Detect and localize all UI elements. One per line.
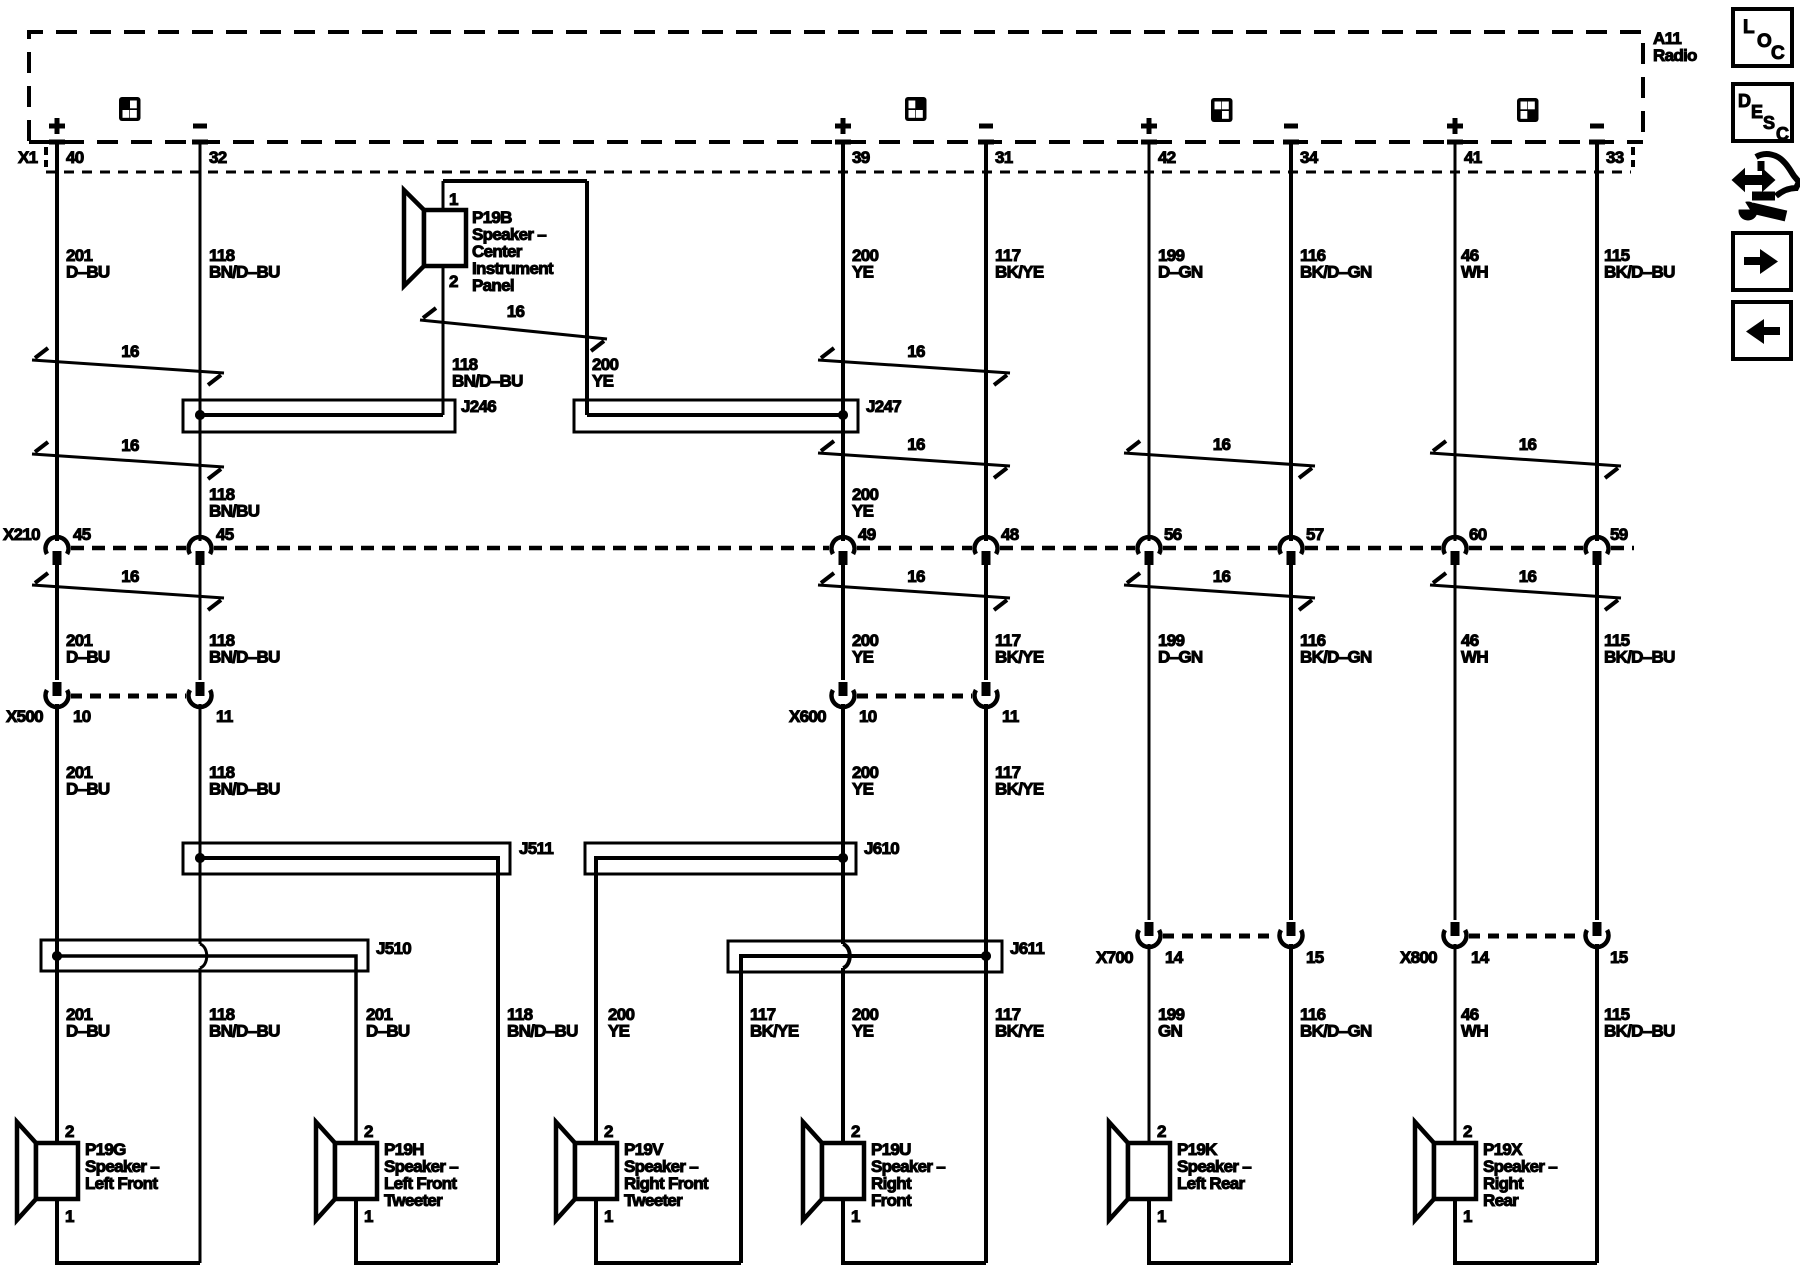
label wire 201 D-BU tweeter branch [366,1005,410,1041]
label wire 201 D-BU top [66,246,110,282]
svg-text:48: 48 [1001,525,1019,544]
svg-text:Front: Front [871,1191,912,1210]
svg-text:WH: WH [1461,1022,1488,1041]
svg-text:59: 59 [1610,525,1628,544]
svg-text:BK/D–GN: BK/D–GN [1300,648,1372,667]
label wire 118 BN/BU below J246 [209,485,260,521]
svg-text:32: 32 [209,148,227,167]
svg-text:2: 2 [65,1122,74,1141]
label P19B wire 200 YE [592,355,619,391]
radio output terminal RR+ pin 41 (+) [1447,118,1482,167]
svg-text:X500: X500 [6,707,43,726]
label wire 199 D-GN top [1158,246,1203,282]
label wire 115 BK/D-BU top [1604,246,1675,282]
svg-text:YE: YE [852,502,874,521]
svg-text:16: 16 [907,435,925,454]
wire gauge marker 16 (row B wires 40/32) [32,436,224,479]
svg-text:41: 41 [1464,148,1482,167]
svg-text:16: 16 [907,567,925,586]
wire 46 WH right rear + (W7) [1444,141,1598,1263]
wire gauge marker 16 (row B wires 41/33) [1430,435,1621,478]
svg-text:D–GN: D–GN [1158,263,1203,282]
svg-text:Tweeter: Tweeter [384,1191,443,1210]
speaker P19X Right Rear [1415,1122,1557,1226]
svg-text:X210: X210 [3,525,40,544]
svg-text:49: 49 [858,525,876,544]
svg-text:11: 11 [1002,707,1019,726]
label wire 200 YE below X600 [852,763,879,799]
label wire 46 WH mid [1461,631,1488,667]
svg-text:16: 16 [1519,435,1537,454]
radio output terminal RF- pin 31 (-) [978,126,1013,167]
svg-text:YE: YE [852,780,874,799]
svg-text:D–BU: D–BU [66,1022,110,1041]
svg-text:2: 2 [1157,1122,1166,1141]
wire 116 BK/D-GN left rear - (W6) [1280,141,1303,1263]
connector X600 [789,696,1019,726]
svg-text:J510: J510 [376,939,411,958]
splice J610 [585,839,899,1143]
svg-text:E: E [1751,102,1763,122]
svg-text:BN/D–BU: BN/D–BU [209,263,280,282]
svg-text:1: 1 [364,1207,373,1226]
label wire 201 D-BU mid [66,631,110,667]
svg-text:D–GN: D–GN [1158,648,1203,667]
svg-text:O: O [1757,31,1771,52]
svg-text:15: 15 [1306,948,1324,967]
svg-text:BK/D–BU: BK/D–BU [1604,648,1675,667]
legend icon forward arrow [1733,233,1791,290]
label wire 116 BK/D-GN mid [1300,631,1372,667]
svg-text:2: 2 [364,1122,373,1141]
label wire 46 WH bottom [1461,1005,1488,1041]
svg-text:16: 16 [507,302,525,321]
svg-text:10: 10 [73,707,91,726]
splice J611 [728,939,1044,1263]
radio output terminal LF+ pin 40 (+) [49,118,84,167]
svg-text:2: 2 [1463,1122,1472,1141]
radio output terminal RR- pin 33 (-) [1589,126,1624,167]
svg-text:YE: YE [852,1022,874,1041]
svg-text:1: 1 [449,190,458,209]
label wire 118 BN/D-BU tweeter branch [507,1005,578,1041]
wire gauge marker 16 (row B wires 42/34) [1124,435,1315,478]
svg-text:Left Front: Left Front [85,1174,158,1193]
speaker P19V Right Front Tweeter [556,1122,709,1226]
svg-text:16: 16 [121,342,139,361]
svg-text:60: 60 [1469,525,1487,544]
svg-text:Tweeter: Tweeter [624,1191,683,1210]
svg-text:YE: YE [852,648,874,667]
wire 201 D-BU left front + (W1) [45,141,200,1263]
svg-text:BN/BU: BN/BU [209,502,260,521]
svg-text:BK/D–BU: BK/D–BU [1604,1022,1675,1041]
label wire 117 BK/YE tweeter branch [750,1005,799,1041]
wire P19B speaker feed (top bar) [443,181,587,415]
radio output terminal LR- pin 34 (-) [1283,126,1319,167]
speaker P19U Right Front [803,1122,945,1226]
svg-text:C: C [1776,124,1789,144]
radio A11 dashed outline [29,32,1643,142]
svg-text:1: 1 [65,1207,74,1226]
connector X500 [6,696,233,726]
wire 115 BK/D-BU right rear - (W8) [1586,141,1609,1263]
speaker position icon (left front) [119,97,141,121]
speaker position icon (right rear) [1517,98,1539,122]
svg-text:WH: WH [1461,648,1488,667]
speaker P19K Left Rear [1109,1122,1251,1226]
label wire 200 YE below J247 [852,485,879,521]
svg-text:45: 45 [216,525,234,544]
splice J247 [574,397,901,432]
label wire 200 YE bottom [852,1005,879,1041]
svg-text:J611: J611 [1010,939,1044,958]
connector X210 row [71,546,1634,551]
svg-text:X800: X800 [1400,948,1437,967]
svg-text:Radio: Radio [1653,46,1697,65]
label wire 117 BK/YE bottom [995,1005,1044,1041]
splice J246 [183,397,496,432]
label wire 117 BK/YE mid [995,631,1044,667]
svg-text:1: 1 [1463,1207,1472,1226]
label wire 46 WH top [1461,246,1488,282]
legend icon LOC [1733,9,1792,66]
svg-text:S: S [1763,113,1775,133]
svg-text:16: 16 [1213,435,1231,454]
wire 118 BN/D-BU left front - (W2) [189,141,212,1263]
label wire 200 YE top [852,246,879,282]
svg-text:J246: J246 [461,397,496,416]
wire P19V pin1 return run [596,1198,741,1263]
label wire 116 BK/D-GN bottom [1300,1005,1372,1041]
svg-text:X1: X1 [18,148,38,167]
svg-text:BK/D–GN: BK/D–GN [1300,1022,1372,1041]
svg-text:1: 1 [604,1207,613,1226]
svg-text:11: 11 [216,707,233,726]
label wire 118 BN/D-BU bottom [209,1005,280,1041]
speaker position icon (left rear) [1211,98,1233,122]
label wire 200 YE mid [852,631,879,667]
wire gauge marker 16 (row C wires 42/34) [1124,567,1315,610]
label wire 200 YE tweeter branch [608,1005,635,1041]
speaker P19H Left Front Tweeter [316,1122,458,1226]
svg-text:16: 16 [1213,567,1231,586]
svg-text:15: 15 [1610,948,1628,967]
label wire 118 BN/D-BU top [209,246,280,282]
svg-text:BN/D–BU: BN/D–BU [209,648,280,667]
wire gauge marker 16 (row C wires 39/31) [818,567,1010,610]
svg-text:D–BU: D–BU [366,1022,410,1041]
svg-text:33: 33 [1606,148,1624,167]
legend icon back arrow [1733,302,1791,359]
label wire 117 BK/YE top [995,246,1044,282]
svg-text:BK/YE: BK/YE [750,1022,799,1041]
svg-text:31: 31 [995,148,1013,167]
svg-text:BN/D–BU: BN/D–BU [209,1022,280,1041]
X210 label and pins [3,525,1628,544]
label wire 118 BN/D-BU mid [209,631,280,667]
svg-text:BN/D–BU: BN/D–BU [209,780,280,799]
label wire 118 BN/D-BU below X500 [209,763,280,799]
svg-text:16: 16 [907,342,925,361]
svg-text:J247: J247 [866,397,901,416]
svg-text:Rear: Rear [1483,1191,1519,1210]
svg-text:BK/D–GN: BK/D–GN [1300,263,1372,282]
wire 117 BK/YE right front - (W4) [975,141,998,1263]
label wire 199 D-GN mid [1158,631,1203,667]
svg-text:14: 14 [1471,948,1490,967]
wire gauge marker 16 (row A wires 39/31) [818,342,1010,385]
label wire 116 BK/D-GN top [1300,246,1372,282]
label wire 115 BK/D-BU mid [1604,631,1675,667]
svg-text:WH: WH [1461,263,1488,282]
label wire 201 D-BU below X500 [66,763,110,799]
legend icon DESC [1733,84,1792,144]
svg-text:39: 39 [852,148,870,167]
svg-text:YE: YE [592,372,614,391]
svg-text:BK/YE: BK/YE [995,780,1044,799]
label wire 199 GN bottom [1158,1005,1185,1041]
label wire 117 BK/YE below X600 [995,763,1044,799]
svg-text:BK/YE: BK/YE [995,263,1044,282]
svg-text:1: 1 [851,1207,860,1226]
svg-text:42: 42 [1158,148,1176,167]
svg-text:BK/D–BU: BK/D–BU [1604,263,1675,282]
svg-text:YE: YE [852,263,874,282]
svg-text:16: 16 [121,567,139,586]
svg-text:BK/YE: BK/YE [995,1022,1044,1041]
label A11 Radio [1653,29,1697,65]
svg-text:BN/D–BU: BN/D–BU [452,372,523,391]
svg-text:BK/YE: BK/YE [995,648,1044,667]
svg-text:D–BU: D–BU [66,263,110,282]
connector X1 row [18,147,1633,172]
svg-text:J511: J511 [519,839,553,858]
wire 199 D-GN left rear + (W5) [1138,141,1292,1263]
connector X700 [1096,936,1324,967]
svg-text:YE: YE [608,1022,630,1041]
radio output terminal LF- pin 32 (-) [192,126,227,167]
svg-text:1: 1 [1157,1207,1166,1226]
svg-text:56: 56 [1164,525,1182,544]
radio output terminal RF+ pin 39 (+) [835,118,870,167]
svg-text:D–BU: D–BU [66,780,110,799]
svg-text:40: 40 [66,148,84,167]
svg-text:D: D [1738,91,1751,111]
wire 200 YE right front + (W3) [832,141,986,1263]
svg-text:57: 57 [1306,525,1324,544]
label wire 115 BK/D-BU bottom [1604,1005,1675,1041]
speaker P19B Center Instrument Panel [404,190,554,295]
svg-text:16: 16 [121,436,139,455]
wire gauge marker 16 (row C wires 40/32) [32,567,224,610]
wire gauge marker 16 (row B wires 39/31) [818,435,1010,478]
wire gauge marker 16 (P19B wires) [420,302,607,351]
svg-text:X700: X700 [1096,948,1133,967]
wire gauge marker 16 (row A wires 40/32) [32,342,224,385]
svg-text:X600: X600 [789,707,826,726]
svg-text:D–BU: D–BU [66,648,110,667]
radio output terminal LR+ pin 42 (+) [1141,118,1176,167]
svg-text:C: C [1771,43,1785,64]
svg-text:GN: GN [1158,1022,1183,1041]
speaker P19G Left Front [17,1122,159,1226]
svg-text:2: 2 [604,1122,613,1141]
wire gauge marker 16 (row C wires 41/33) [1430,567,1621,610]
label wire 201 D-BU bottom [66,1005,110,1041]
svg-text:2: 2 [449,272,458,291]
label P19B wire 118 BN/D-BU [452,355,523,391]
speaker position icon (right front) [905,97,927,121]
svg-text:Left Rear: Left Rear [1177,1174,1245,1193]
svg-text:34: 34 [1300,148,1319,167]
svg-text:L: L [1743,17,1755,38]
splice J510 [41,939,411,1143]
svg-text:14: 14 [1165,948,1184,967]
splice J511 [183,839,553,1263]
svg-text:16: 16 [1519,567,1537,586]
svg-text:10: 10 [859,707,877,726]
svg-text:BN/D–BU: BN/D–BU [507,1022,578,1041]
legend icon wiring route (arrow and wrench) [1733,154,1799,220]
svg-text:45: 45 [73,525,91,544]
svg-text:J610: J610 [864,839,899,858]
wire P19H pin1 return run [356,1198,498,1263]
svg-text:Panel: Panel [472,276,514,295]
connector X800 [1400,936,1628,967]
svg-text:2: 2 [851,1122,860,1141]
